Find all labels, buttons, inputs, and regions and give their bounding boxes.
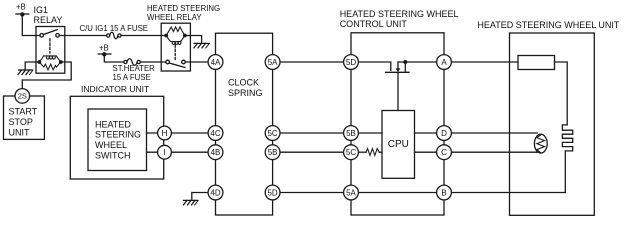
wire fuse1 to HSW relay coil [121,35,166,37]
resistor (CPU input) [366,149,379,156]
ground G3 [184,200,199,205]
heater element (meander) [562,125,572,193]
svg-text:4B: 4B [211,148,221,157]
svg-text:C/U IG1 15 A FUSE: C/U IG1 15 A FUSE [80,24,148,33]
connector H [158,126,172,140]
connector 2S [15,89,30,104]
svg-text:15 A FUSE: 15 A FUSE [113,73,151,82]
svg-text:5B: 5B [268,148,278,157]
heated steering wheel unit box [510,33,595,215]
thermistor (sensor) [534,134,547,153]
svg-text:SWITCH: SWITCH [95,151,131,161]
wire heater box to element [555,62,568,125]
wire FET source to CPU [397,72,399,110]
fuse C/U IG1 15A [107,32,122,38]
svg-text:CONTROL UNIT: CONTROL UNIT [340,19,408,29]
svg-text:4A: 4A [211,58,221,67]
connector 4D [208,185,223,200]
svg-text:WHEEL RELAY: WHEEL RELAY [147,13,202,22]
wire CPU to C [415,151,445,153]
connector 5B control unit [344,126,359,141]
switch contacts IG1 relay [40,30,59,37]
svg-text:STOP: STOP [9,117,33,127]
ground G1 [18,70,33,75]
svg-text:+B: +B [16,3,26,12]
connector B [437,185,452,200]
transistor FET [386,62,409,72]
wire HSW switch to 4A [185,61,215,63]
wire fuse2 to HSW relay switch [140,61,165,63]
junction node coil right [59,60,63,64]
junction node at FET drain [403,60,407,64]
connector I [158,145,172,159]
battery terminal +B (second) [98,52,111,56]
svg-text:HEATED STEERING WHEEL: HEATED STEERING WHEEL [340,9,459,19]
wire 5D to FET gate [358,62,391,70]
wire switch to I [147,151,216,153]
relay coil IG1 (parallel resistors) [39,56,61,70]
svg-text:C: C [441,148,447,157]
wire C to thermistor [451,151,537,153]
svg-text:2S: 2S [18,92,27,101]
junction node HSW coil left [164,34,168,38]
battery terminal +B (top left) [16,12,29,16]
svg-text:HEATED STEERING WHEEL UNIT: HEATED STEERING WHEEL UNIT [477,20,620,30]
connector 5C clock spring [265,126,280,141]
wire CPU to D [415,132,445,134]
svg-text:STEERING: STEERING [95,130,141,140]
wire switch to H [147,132,216,134]
svg-text:SPRING: SPRING [228,88,263,98]
svg-text:5D: 5D [346,58,356,67]
connector A [437,55,452,70]
connector 5A clock spring [265,55,280,70]
svg-text:IG1: IG1 [34,5,49,15]
wire D to thermistor [451,132,537,134]
wire coil to 2S [22,62,71,89]
relay coil HSW (parallel resistors) [166,27,185,45]
control unit box [351,33,444,215]
svg-text:START: START [9,107,38,117]
heater resistor box [518,56,555,70]
wire 5C to 5B (row2) [273,132,351,134]
wire coil to ground [25,62,39,70]
connector C [437,145,452,160]
wire 5C to resistor to CPU [358,151,366,153]
junction node coil left [37,60,41,64]
svg-text:CPU: CPU [388,139,409,150]
svg-text:CLOCK: CLOCK [228,77,259,87]
clock spring box [216,33,273,215]
wire 5B to CPU [358,132,382,134]
heated steering wheel switch box [88,109,147,171]
connector 4C [208,126,223,141]
CPU box [382,111,415,179]
dashed link IG1 relay [49,39,51,53]
connector 5D clock spring [265,185,280,200]
start stop unit box [4,96,45,139]
connector 5C control unit [344,145,359,160]
svg-text:HEATED STEERING: HEATED STEERING [147,4,220,13]
svg-text:5A: 5A [268,58,278,67]
svg-text:B: B [441,188,446,197]
wire 5D to 5A (row4) [273,192,351,194]
switch contacts HSW relay [166,60,186,67]
connector D [437,126,452,141]
connector 4A [208,55,223,70]
dashed link HSW relay [174,45,176,60]
relay IG1 box [36,27,65,74]
svg-text:5C: 5C [346,148,356,157]
svg-text:5C: 5C [267,129,277,138]
svg-text:4C: 4C [210,129,220,138]
svg-text:D: D [441,129,447,138]
wire 5A to 5D (row1) [273,61,351,63]
wire FET to A [398,61,444,63]
connector 5A control unit [344,185,359,200]
wire A to heater element [451,61,518,63]
svg-text:WHEEL: WHEEL [95,140,127,150]
wire HSW coil to ground [185,36,202,44]
svg-text:5B: 5B [346,129,356,138]
fuse ST.HEATER 15A [124,59,141,65]
svg-text:HEATED: HEATED [95,119,131,129]
wire B to element bottom [451,192,565,194]
svg-text:I: I [163,148,165,157]
connector 5D control unit [344,55,359,70]
connector 5B clock spring [265,145,280,160]
indicator unit box [70,96,163,179]
wire IG1 switch to fuse [59,35,106,37]
junction node HSW coil right [183,34,187,38]
svg-text:+B: +B [99,44,109,53]
relay HSW box [161,23,190,71]
wire +B2 to fuse2 [104,54,124,62]
svg-text:RELAY: RELAY [34,15,63,25]
connector 4B [208,145,223,160]
svg-text:4D: 4D [210,188,220,197]
svg-text:ST.HEATER: ST.HEATER [113,64,156,73]
svg-text:H: H [162,129,168,138]
svg-text:5D: 5D [267,188,277,197]
wire +B1 to IG1 relay [22,14,40,35]
wire ground to 4D [192,193,216,201]
svg-text:5A: 5A [346,188,356,197]
svg-text:A: A [441,58,447,67]
svg-text:UNIT: UNIT [9,128,30,138]
ground G2 [194,43,209,48]
wire 5B to 5C (row3) [273,151,351,153]
svg-text:INDICATOR UNIT: INDICATOR UNIT [81,84,149,94]
wire 5A to B [358,192,444,194]
